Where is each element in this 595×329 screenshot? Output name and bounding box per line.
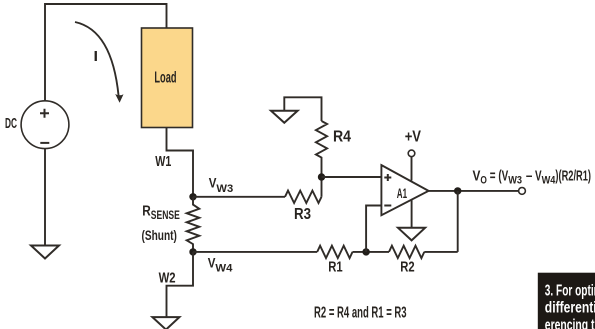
ground below op-amp <box>398 228 425 241</box>
svg-text:R4: R4 <box>333 128 351 145</box>
wire from DC- terminal down to ground <box>44 149 46 246</box>
resistor RSENSE (shunt) <box>187 197 200 252</box>
output terminal circle <box>519 188 526 195</box>
node at noninverting input junction dot <box>318 173 325 180</box>
+V supply terminal <box>408 150 415 180</box>
svg-text:= (V: = (V <box>490 168 509 184</box>
svg-text:W3: W3 <box>508 175 522 187</box>
wire from node VW4 to R1 <box>193 251 317 253</box>
wire op-amp to ground below <box>411 200 413 228</box>
svg-text:+V: +V <box>405 128 422 145</box>
feedback node junction dot <box>362 248 369 255</box>
label VW3 <box>209 175 234 195</box>
load <box>142 28 193 128</box>
wire R1 to feedback node <box>353 251 390 253</box>
svg-text:R1: R1 <box>328 258 342 275</box>
node VW3 junction dot <box>189 193 196 200</box>
output node junction dot <box>454 187 461 194</box>
svg-text:R2: R2 <box>400 258 414 275</box>
resistor R1 <box>317 246 352 258</box>
svg-text:differential: differential <box>545 300 595 317</box>
svg-text:I: I <box>94 48 99 65</box>
svg-text:erencing th: erencing th <box>545 317 595 329</box>
svg-text:W2: W2 <box>159 270 176 287</box>
wire from ground to R4 top <box>284 97 321 121</box>
ground above R4 <box>271 111 298 123</box>
svg-text:A1: A1 <box>397 185 407 201</box>
voltage source DC <box>21 101 69 149</box>
svg-text:Load: Load <box>154 69 176 86</box>
svg-text:SENSE: SENSE <box>151 210 180 222</box>
ground below W2 <box>152 317 179 329</box>
op-amp A1 <box>381 165 428 215</box>
label RSENSE <box>142 203 180 223</box>
svg-text:R2 = R4 and R1 = R3: R2 = R4 and R1 = R3 <box>314 305 407 322</box>
resistor R3 <box>285 191 322 203</box>
wire W2 from node VW4 down to ground <box>167 252 194 317</box>
svg-text:W3: W3 <box>216 183 233 195</box>
ground below DC source <box>31 246 59 259</box>
wire R2 to output riser <box>424 251 457 253</box>
svg-text:O: O <box>480 175 487 187</box>
wire from node VW3 to R3 <box>193 196 285 198</box>
svg-text:)(R2/R1): )(R2/R1) <box>555 168 591 184</box>
wire W1 from Load bottom to node VW3 <box>167 128 194 197</box>
svg-text:R3: R3 <box>294 206 311 223</box>
current arrow I <box>75 22 124 103</box>
svg-text:(Shunt): (Shunt) <box>142 227 177 243</box>
svg-text:–: – <box>526 168 533 184</box>
output wire from op-amp to terminal <box>429 190 519 192</box>
wire from DC+ terminal up and across to Load top <box>45 4 167 101</box>
node VW4 junction dot <box>189 248 196 255</box>
caption box <box>538 273 595 329</box>
resistor R2 <box>389 246 424 258</box>
svg-text:3. For optimum: 3. For optimum <box>545 282 595 299</box>
label VO = (VW3 - VW4)(R2/R1) <box>473 168 592 186</box>
feedback wire from node to op-amp - input <box>366 206 381 252</box>
svg-text:DC: DC <box>5 116 17 132</box>
svg-text:W4: W4 <box>542 175 557 187</box>
label VW4 <box>208 254 234 274</box>
wire from output node down to R2 <box>457 191 459 252</box>
svg-text:W4: W4 <box>215 262 233 274</box>
svg-text:W1: W1 <box>155 153 171 170</box>
resistor R4 <box>316 121 327 177</box>
wire from R3 up to noninverting node <box>321 177 323 197</box>
wire node to op-amp + input <box>322 176 382 178</box>
svg-text:R: R <box>142 203 151 220</box>
